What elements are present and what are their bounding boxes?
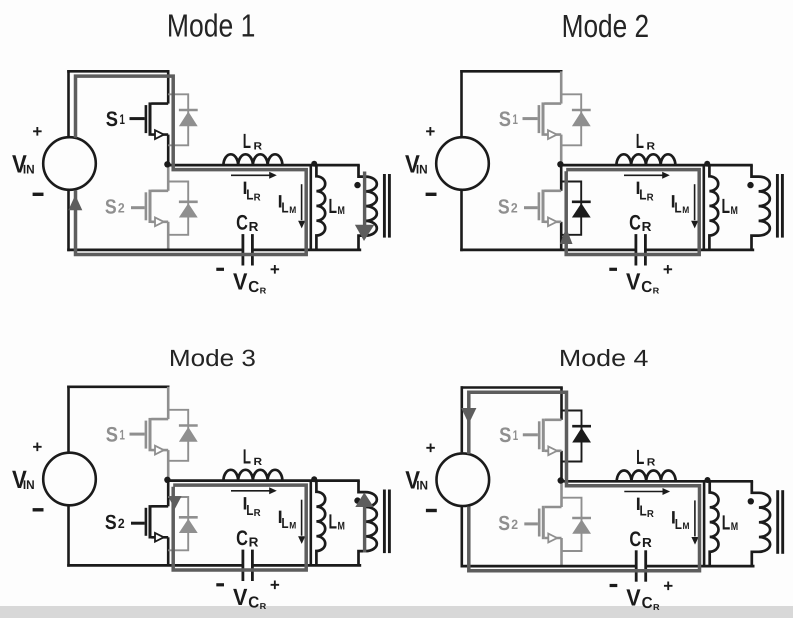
svg-text:R: R: [642, 219, 652, 234]
body diode of S1 (Mode 4): [562, 411, 582, 462]
current direction arrow at S2 (Mode 2): [560, 228, 573, 244]
svg-text:V: V: [626, 585, 641, 611]
junction dot at LM branch (Mode 1): [311, 161, 317, 167]
svg-text:2: 2: [118, 516, 125, 531]
inductor LR (Mode 1): [223, 154, 282, 165]
polarity dot of transformer (Mode 3): [354, 497, 360, 503]
svg-text:IN: IN: [23, 478, 35, 492]
svg-text:+: +: [32, 122, 42, 141]
svg-text:C: C: [629, 212, 641, 235]
svg-text:Mode 2: Mode 2: [562, 8, 650, 44]
svg-text:Mode 1: Mode 1: [167, 7, 256, 43]
wire left vertical (Mode 4): [460, 386, 463, 452]
svg-text:L: L: [722, 511, 731, 534]
svg-text:S: S: [105, 196, 117, 219]
wire right edge vertical (Mode 4): [703, 481, 706, 566]
node A between S1 and S2 (Mode 3): [164, 477, 170, 483]
highlight current path (Mode 2): [566, 170, 699, 255]
svg-text:C: C: [236, 527, 248, 550]
inductor LR (Mode 2): [616, 154, 675, 165]
svg-text:R: R: [642, 535, 652, 550]
svg-text:Mode 4: Mode 4: [559, 345, 649, 371]
svg-text:+: +: [425, 122, 435, 141]
minus sign of VIN (Mode 4): [426, 509, 437, 512]
body diode of S1 (Mode 2): [561, 94, 581, 145]
current arrow ILR (Mode 1): [231, 174, 271, 176]
junction dot at LM branch (Mode 2): [704, 161, 710, 167]
minus sign of VCR (Mode 1): [216, 268, 224, 271]
svg-text:R: R: [254, 508, 262, 519]
svg-text:S: S: [106, 423, 118, 446]
svg-text:R: R: [260, 601, 267, 611]
wire S2 source to bottom rail (Mode 1): [167, 222, 170, 250]
minus sign of VCR (Mode 4): [610, 584, 618, 587]
capacitor CR (Mode 4): [635, 550, 638, 581]
svg-text:C: C: [642, 595, 653, 612]
body diode of S2 (Mode 4): [562, 498, 582, 551]
wire S2 source to bottom rail (Mode 2): [560, 222, 563, 250]
svg-text:1: 1: [513, 427, 519, 443]
svg-text:R: R: [254, 193, 262, 204]
svg-text:V: V: [626, 269, 641, 295]
minus sign of VIN (Mode 3): [33, 508, 44, 511]
svg-text:S: S: [106, 108, 118, 131]
svg-text:M: M: [682, 205, 689, 216]
node A between S1 and S2 (Mode 2): [557, 161, 563, 167]
svg-text:+: +: [663, 260, 673, 279]
wire top horizontal (Mode 1): [67, 70, 169, 73]
wire inner top horizontal (Mode 1): [168, 164, 360, 167]
wire top horizontal (Mode 3): [67, 385, 169, 388]
wire inner top horizontal (Mode 3): [168, 479, 360, 482]
body diode of S2 (Mode 2): [561, 182, 581, 235]
wire node to S2 drain (Mode 3): [167, 481, 170, 507]
wire S1 drain column (Mode 3): [167, 387, 170, 419]
svg-text:1: 1: [120, 426, 126, 442]
svg-text:M: M: [289, 205, 296, 216]
transformer T primary winding (Mode 4): [752, 481, 770, 566]
svg-text:R: R: [647, 140, 656, 152]
transistor S2 MOSFET (Mode 1): [131, 190, 168, 227]
svg-text:S: S: [498, 196, 510, 219]
svg-text:C: C: [236, 212, 248, 235]
svg-text:+: +: [426, 438, 436, 457]
polarity dot of transformer (Mode 1): [354, 182, 360, 188]
svg-text:IN: IN: [416, 163, 428, 177]
svg-text:S: S: [105, 511, 117, 534]
svg-text:C: C: [248, 594, 259, 611]
wire left vertical (Mode 3): [67, 386, 70, 452]
svg-text:IN: IN: [23, 163, 35, 177]
highlight current path (Mode 4): [469, 392, 700, 570]
source VIN (Mode 1): [43, 137, 96, 190]
transformer core (Mode 2): [776, 174, 779, 238]
wire S2 source to bottom rail (Mode 3): [167, 537, 170, 565]
minus sign of VIN (Mode 1): [33, 193, 44, 196]
transistor S2 MOSFET (Mode 2): [524, 190, 561, 227]
transformer core (Mode 1): [383, 174, 386, 238]
svg-text:+: +: [663, 576, 673, 595]
current direction arrow on left branch (Mode 4): [461, 408, 476, 424]
wire top horizontal (Mode 2): [460, 70, 562, 73]
svg-text:M: M: [683, 521, 690, 532]
capacitor CR (Mode 1): [241, 234, 244, 265]
source VIN (Mode 4): [437, 453, 490, 506]
svg-text:L: L: [243, 445, 251, 468]
transistor S1 MOSFET (Mode 2): [523, 102, 562, 139]
wire S1 source to node (Mode 3): [167, 450, 170, 481]
transistor S1 MOSFET (Mode 3): [130, 418, 169, 455]
svg-text:R: R: [249, 219, 259, 234]
svg-text:2: 2: [118, 201, 125, 216]
current arrow ILM (Mode 2): [694, 184, 696, 220]
svg-text:C: C: [629, 528, 641, 551]
wire bottom rail (Mode 1): [67, 249, 243, 252]
wire bottom rail (Mode 3): [67, 564, 243, 567]
transformer T primary winding (Mode 3): [359, 481, 377, 566]
svg-text:+: +: [32, 438, 42, 457]
body diode of S1 (Mode 3): [168, 410, 188, 461]
inductor LM (Mode 1): [316, 165, 325, 250]
svg-text:IN: IN: [416, 479, 428, 493]
svg-text:M: M: [338, 520, 345, 532]
svg-text:1: 1: [513, 111, 519, 127]
svg-text:2: 2: [511, 517, 518, 532]
inductor LR (Mode 4): [617, 471, 676, 482]
svg-text:Mode 3: Mode 3: [169, 345, 256, 371]
wire S1 drain column (Mode 1): [167, 71, 170, 103]
inductor LM (Mode 2): [709, 165, 718, 250]
svg-text:R: R: [254, 456, 263, 468]
svg-text:S: S: [498, 512, 510, 535]
svg-text:R: R: [653, 602, 660, 612]
transistor S1 MOSFET (Mode 1): [130, 102, 169, 139]
svg-text:L: L: [639, 187, 646, 203]
svg-text:L: L: [674, 201, 681, 217]
svg-text:S: S: [499, 108, 511, 131]
svg-text:M: M: [731, 521, 738, 533]
current arrow ILR (Mode 3): [231, 490, 271, 492]
wire right edge vertical (Mode 3): [309, 481, 312, 566]
inductor LM (Mode 4): [710, 481, 719, 566]
svg-text:+: +: [270, 260, 280, 279]
wire node to S2 drain (Mode 1): [167, 165, 170, 191]
wire inner top horizontal (Mode 2): [561, 164, 753, 167]
svg-text:R: R: [647, 509, 655, 520]
current arrow ILR (Mode 2): [624, 174, 664, 176]
svg-text:R: R: [260, 286, 267, 296]
current direction arrow on VIN branch (Mode 1): [68, 195, 82, 210]
wire node to S2 drain (Mode 4): [560, 481, 563, 507]
svg-text:L: L: [246, 503, 253, 519]
transformer T primary winding (Mode 1): [359, 165, 377, 250]
minus sign of VIN (Mode 2): [426, 193, 437, 196]
svg-text:2: 2: [511, 201, 518, 216]
current direction arrow at S2 (Mode 3): [168, 496, 182, 509]
wire S1 drain column (Mode 4): [560, 388, 563, 420]
current direction arrow in transformer primary (Mode 1): [363, 172, 366, 229]
wire S1 source to node (Mode 1): [167, 135, 170, 166]
svg-text:L: L: [636, 130, 644, 153]
transistor S2 MOSFET (Mode 3): [131, 505, 168, 542]
node A between S1 and S2 (Mode 4): [558, 477, 564, 483]
wire node to S2 drain (Mode 2): [560, 165, 563, 191]
inductor LM (Mode 3): [316, 481, 325, 566]
node A between S1 and S2 (Mode 1): [164, 161, 170, 167]
inductor LR (Mode 3): [223, 470, 282, 481]
body diode of S2 (Mode 1): [168, 182, 188, 235]
polarity dot of transformer (Mode 2): [747, 182, 753, 188]
svg-text:L: L: [722, 195, 731, 218]
svg-text:V: V: [233, 584, 248, 610]
transformer T primary winding (Mode 2): [752, 165, 770, 250]
transistor S2 MOSFET (Mode 4): [524, 506, 561, 543]
wire right edge vertical (Mode 1): [309, 165, 312, 250]
wire S1 source to node (Mode 2): [560, 135, 563, 166]
svg-text:L: L: [246, 187, 253, 203]
wire top horizontal (Mode 4): [461, 386, 563, 389]
body diode of S1 (Mode 1): [168, 94, 188, 145]
body diode of S2 (Mode 3): [168, 497, 188, 550]
wire S2 source to bottom rail (Mode 4): [560, 538, 563, 566]
source VIN (Mode 2): [436, 137, 489, 190]
svg-text:L: L: [640, 504, 647, 520]
current arrow ILR (Mode 4): [624, 491, 664, 493]
wire bottom rail (Mode 2): [460, 249, 636, 252]
junction dot at LM branch (Mode 3): [311, 476, 317, 482]
capacitor CR (Mode 2): [635, 234, 638, 265]
svg-text:M: M: [338, 205, 345, 217]
minus sign of VCR (Mode 2): [609, 268, 617, 271]
bottom gray band artifact: [0, 606, 793, 618]
svg-text:M: M: [289, 520, 296, 531]
junction dot at LM branch (Mode 4): [705, 477, 711, 483]
source VIN (Mode 3): [43, 453, 96, 506]
wire S1 source to node (Mode 4): [560, 451, 563, 482]
wire right edge vertical (Mode 2): [702, 165, 705, 250]
svg-text:L: L: [281, 201, 288, 217]
svg-text:L: L: [636, 446, 644, 469]
highlight current path (Mode 3): [173, 485, 306, 570]
transistor S1 MOSFET (Mode 4): [523, 419, 562, 456]
svg-text:L: L: [329, 511, 338, 534]
wire bottom rail (Mode 4): [461, 565, 637, 568]
svg-text:L: L: [675, 517, 682, 533]
transformer core (Mode 3): [383, 490, 386, 554]
svg-text:V: V: [233, 269, 248, 295]
svg-text:L: L: [329, 195, 338, 218]
svg-text:C: C: [641, 279, 652, 296]
svg-text:+: +: [270, 576, 280, 595]
svg-text:R: R: [249, 534, 259, 549]
current direction arrow in transformer primary (Mode 3): [363, 503, 366, 553]
transformer core (Mode 4): [776, 490, 779, 554]
minus sign of VCR (Mode 3): [216, 583, 224, 586]
highlight current path (Mode 1): [76, 76, 307, 254]
wire inner top horizontal (Mode 4): [562, 480, 754, 483]
current arrow ILM (Mode 1): [301, 184, 303, 220]
svg-text:C: C: [248, 279, 259, 296]
svg-text:R: R: [254, 140, 263, 152]
current arrow ILM (Mode 3): [301, 500, 303, 536]
wire S1 drain column (Mode 2): [560, 71, 563, 103]
svg-text:L: L: [243, 130, 251, 153]
wire left vertical (Mode 2): [460, 70, 463, 136]
svg-text:R: R: [647, 457, 656, 469]
capacitor CR (Mode 3): [241, 550, 244, 581]
svg-text:S: S: [499, 424, 511, 447]
svg-text:R: R: [653, 286, 660, 296]
wire left vertical (Mode 1): [67, 70, 70, 136]
svg-text:L: L: [281, 516, 288, 532]
current arrow ILM (Mode 4): [694, 500, 696, 536]
svg-text:M: M: [731, 205, 738, 217]
svg-text:R: R: [647, 193, 655, 204]
polarity dot of transformer (Mode 4): [748, 498, 754, 504]
svg-text:1: 1: [120, 111, 126, 127]
